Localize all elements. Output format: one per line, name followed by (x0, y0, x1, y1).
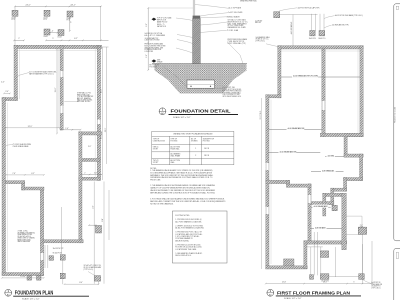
svg-text:BELOW: BELOW (255, 22, 261, 24)
svg-text:6′-2″: 6′-2″ (31, 173, 35, 175)
fp wall: left lower (2, 98, 6, 276)
dim: fp bottom a (1, 277, 44, 279)
title block box 1 (394, 4, 400, 241)
pier footing P1 (12, 10, 18, 16)
svg-text:4x8 BEAM AB.: 4x8 BEAM AB. (322, 169, 335, 172)
fp footing line: right (94, 47, 96, 178)
svg-text:31′-5″ M.O.: 31′-5″ M.O. (260, 110, 262, 119)
leader: bof (163, 67, 187, 88)
ffp notch top (344, 133, 363, 136)
ext line fp right dim b (106, 47, 108, 164)
svg-text:U.N.O. EXTEND 12″ MIN: U.N.O. EXTEND 12″ MIN (223, 94, 240, 96)
ffp label top 3 (332, 24, 349, 27)
svg-text:19′-0″: 19′-0″ (101, 134, 103, 139)
title block tick 2 (396, 252, 399, 258)
pier footing P7 (60, 273, 65, 279)
ffp left wall opening 1 (266, 163, 269, 170)
dim line: pier vertical (69, 17, 71, 32)
ffp label top 2 (335, 14, 364, 17)
beam: room7 (311, 228, 342, 230)
dim: pier P11 tie (88, 224, 96, 226)
svg-text:4x10 BEAM ABOVE: 4x10 BEAM ABOVE (288, 127, 306, 130)
leader: stem wall note (64, 101, 77, 103)
ffp chimney pier (332, 205, 337, 210)
fp wall: utility vert (22, 181, 25, 190)
fp right wall opening (97, 120, 100, 125)
svg-text:SIZE/DEPTH OF: SIZE/DEPTH OF (203, 139, 214, 141)
pier footing P8 (95, 276, 101, 282)
ffp footing line: top (280, 50, 362, 52)
svg-text:SCALE: 3/4″ = 1′-0″: SCALE: 3/4″ = 1′-0″ (173, 116, 191, 119)
table header c3 (191, 139, 198, 143)
svg-text:18x18 FTG: 18x18 FTG (318, 38, 326, 40)
beam: room4 (325, 156, 344, 158)
dim: stair horiz (80, 174, 103, 176)
svg-text:8′-0″: 8′-0″ (79, 282, 83, 284)
fp footing line: left upper (19, 47, 21, 99)
pier footing P12 (49, 256, 54, 260)
ffp wall: right mid (360, 154, 363, 181)
svg-text:24′-5″: 24′-5″ (25, 5, 30, 7)
ffp step mid 2 (287, 184, 312, 187)
ext: fp bottom 2 (98, 281, 100, 284)
table: grid (152, 131, 234, 164)
fp interior wall opening 2 (60, 106, 63, 113)
ffp notch left (344, 133, 347, 157)
foundation detail group (145, 0, 257, 119)
svg-text:34′-1″: 34′-1″ (70, 5, 75, 7)
ffp stair jog 3h (311, 202, 334, 205)
detail ext top (148, 7, 193, 9)
table header c2 (171, 139, 179, 143)
svg-text:18x18 FTG: 18x18 FTG (309, 38, 317, 40)
footing notes border (172, 211, 227, 263)
svg-text:18x18 FTG TYP: 18x18 FTG TYP (53, 248, 64, 250)
note: site grade (157, 60, 163, 64)
ffp bottom pier 1 (320, 251, 328, 258)
plan title: FOUNDATION PLAN (5, 289, 89, 300)
svg-text:4′-0″: 4′-0″ (1, 82, 5, 84)
ffp wall: mid horizontal (320, 133, 363, 136)
ffp bottom post lines (307, 232, 363, 277)
svg-text:LOCATIONS AT THE CASE.: LOCATIONS AT THE CASE. (175, 248, 197, 251)
svg-text:18x18: 18x18 (67, 18, 71, 20)
ffp wall: top (278, 46, 364, 49)
svg-text:2′-6″: 2′-6″ (146, 54, 148, 58)
ffp bottom pier 3 (310, 275, 314, 280)
ffp notch bottom (344, 154, 363, 157)
detail: footing rebar dot 1 (190, 86, 191, 87)
svg-text:TYPE OF: TYPE OF (171, 139, 178, 141)
svg-text:ELEC. SLEEVES THRU STEM: ELEC. SLEEVES THRU STEM (145, 46, 166, 48)
svg-text:FOOTING: FOOTING (171, 140, 179, 142)
ffp wall: bottom left (266, 266, 308, 269)
ffp ext right (362, 234, 364, 283)
svg-text:NOTED ON THE DRAWINGS.: NOTED ON THE DRAWINGS. (150, 202, 174, 205)
svg-text:FOOTING PER SCHEDULE: FOOTING PER SCHEDULE (223, 91, 242, 93)
ext line corridor right c (108, 190, 110, 240)
svg-text:TYPE OF: TYPE OF (153, 139, 160, 141)
fp footing line: interior (57, 47, 59, 128)
title block box 2 (394, 249, 400, 300)
fp bottom room wall opening (40, 253, 43, 260)
detail title: FOUNDATION DETAIL (159, 108, 238, 119)
ffp wall: interior vertical (322, 49, 325, 137)
ffp chimney right (342, 193, 347, 250)
table r1 c1 (153, 147, 159, 151)
svg-text:ELEV + 1′): ELEV + 1′) (157, 24, 165, 26)
svg-text:29′-0″: 29′-0″ (55, 87, 57, 92)
ffp step mid v (287, 180, 290, 187)
svg-text:3″ CLR. BOTTOM & SIDES.: 3″ CLR. BOTTOM & SIDES. (223, 89, 242, 91)
ffp ext right 2 (371, 241, 373, 284)
fp wall: utility horiz (22, 187, 45, 190)
ffp wall: lower left vert (304, 241, 307, 269)
svg-text:31′-5″: 31′-5″ (28, 126, 33, 128)
fp wall: bottom left (2, 273, 44, 276)
leader: rim seal (200, 17, 226, 18)
leader: right ab (200, 22, 227, 25)
svg-text:& BOTTOM OF STEM: & BOTTOM OF STEM (145, 40, 161, 42)
ext: fp bottom 1 (62, 260, 64, 284)
svg-text:4x4 POST W/: 4x4 POST W/ (371, 282, 381, 284)
notes paragraphs group (150, 168, 226, 206)
svg-text:ANCHOR SIZES).: ANCHOR SIZES). (175, 239, 189, 242)
svg-text:FOOTING NOTES:: FOOTING NOTES: (175, 215, 190, 217)
note: left d (145, 43, 166, 53)
table r1 c2 (171, 146, 181, 151)
svg-text:ONE (1): ONE (1) (153, 147, 159, 149)
svg-text:4″ MIN. CONC.: 4″ MIN. CONC. (18, 231, 29, 233)
dim: fp bottom b (64, 283, 100, 285)
dim line: fp top overall (14, 6, 102, 8)
footing notes box group (172, 211, 227, 263)
svg-text:13′-10″: 13′-10″ (20, 276, 26, 278)
leader: conc ftg note (88, 272, 97, 277)
svg-text:CONSTRUCTION: CONSTRUCTION (153, 140, 165, 142)
ffp step mid 1 (266, 180, 290, 183)
svg-text:AT ALL POST BEARING LOCATIONS.: AT ALL POST BEARING LOCATIONS. (175, 227, 204, 230)
note: proposed grade (228, 38, 248, 45)
leader: top plate (195, 5, 228, 9)
leader: 4slab (200, 30, 226, 32)
ffp leader top3 (324, 25, 332, 28)
pier footing P10 (37, 276, 42, 281)
beam: room5 (311, 171, 344, 173)
pier P3 label (67, 18, 71, 22)
svg-text:3′-6″: 3′-6″ (92, 205, 94, 209)
svg-text:12′-4″: 12′-4″ (101, 88, 103, 93)
fp wall: left upper (14, 45, 18, 100)
ffp wall: left jog (266, 95, 281, 98)
ffp line from pier (280, 14, 318, 16)
ext tie fp right (92, 46, 109, 48)
beam: room6 (311, 206, 331, 208)
fp wall: corridor bottom (43, 240, 83, 243)
ffp footing line: right (357, 47, 359, 133)
pier footing P2 (44, 10, 50, 16)
leader: left wall note (6, 145, 13, 146)
svg-text:W/ 4x4 POST: W/ 4x4 POST (53, 252, 62, 254)
svg-text:7′-6″: 7′-6″ (12, 173, 16, 175)
ffp bottom-right leader (363, 280, 372, 284)
svg-text:NO. OF: NO. OF (191, 139, 196, 141)
beam: room3 (269, 152, 320, 154)
leader: left c (177, 40, 193, 44)
svg-text:ALL POST BEARING LOCATIONS.: ALL POST BEARING LOCATIONS. (175, 220, 202, 223)
svg-text:BEFORE AND DURING THE CONSTRUC: BEFORE AND DURING THE CONSTRUCTION OF FO… (150, 191, 215, 194)
table r2 c2 (171, 153, 182, 158)
svg-text:4x10 BEAM ABV: 4x10 BEAM ABV (314, 205, 329, 208)
leader: left d (176, 48, 193, 53)
svg-text:MECH. INFO AT U.G.: MECH. INFO AT U.G. (175, 254, 192, 257)
ext line fp right (100, 6, 102, 40)
framing plan group (255, 6, 382, 289)
ffp label left wall 2 (256, 36, 271, 43)
ext line pier P6 up (61, 207, 63, 254)
ffp leader left (266, 44, 278, 47)
svg-text:FOUNDATION DETAIL: FOUNDATION DETAIL (171, 109, 231, 114)
ffp stair jog 2v (331, 188, 334, 205)
table header c1 (153, 139, 165, 143)
detail: grade line (152, 63, 247, 65)
svg-text:W/ 6x6 W1.4xW1.4: W/ 6x6 W1.4xW1.4 (18, 236, 31, 238)
svg-text:4x10 BEAM ABOVE (FLUSH): 4x10 BEAM ABOVE (FLUSH) (293, 75, 318, 78)
note: slab reinf (18, 231, 36, 244)
ffp deck lines (346, 216, 362, 234)
leader: slab note (17, 73, 30, 78)
svg-text:(TYP. U.N.O.): (TYP. U.N.O.) (371, 287, 381, 289)
ffp left wall opening 2 (266, 207, 269, 214)
ffp wall: left lower (266, 95, 269, 269)
schedule table group (152, 131, 234, 164)
detail: elevation diamond 1 (152, 18, 157, 21)
fp wall: top (14, 45, 102, 48)
fp wall: interior vertical (60, 45, 63, 130)
pier footing P9 (27, 276, 32, 281)
svg-text:FOOTING: FOOTING (150, 66, 158, 68)
svg-text:18 X 8: 18 X 8 (204, 155, 209, 157)
pier footing P11 (96, 226, 102, 234)
svg-text:4x10 BEAM ABOVE: 4x10 BEAM ABOVE (280, 150, 298, 153)
beam: room2 (269, 128, 322, 130)
fp wall: pocket band 4 (79, 177, 100, 180)
note: stem wall (77, 92, 94, 104)
ffp wall: right upper (360, 46, 363, 137)
svg-text:2′-6″: 2′-6″ (94, 172, 98, 174)
svg-text:18x18: 18x18 (44, 17, 48, 19)
ffp bottom-right note (371, 282, 382, 289)
svg-text:2″ MIN. BELOW TOP OF: 2″ MIN. BELOW TOP OF (228, 41, 245, 43)
ffp deck pier (358, 227, 366, 234)
svg-text:FIRST FLOOR FRAMING PLAN: FIRST FLOOR FRAMING PLAN (277, 290, 350, 296)
svg-text:1′-6″: 1′-6″ (65, 128, 69, 130)
ffp leader top2 (324, 16, 334, 19)
svg-text:(TYP. U.N.O.): (TYP. U.N.O.) (84, 269, 94, 271)
leader: left b (177, 35, 193, 38)
ffp label left wall (255, 20, 262, 24)
svg-text:14′-1″: 14′-1″ (323, 282, 328, 284)
ext line corridor right a (93, 182, 95, 284)
detail: stud wall lines (193, 0, 195, 16)
note: concrete slab (29, 71, 57, 76)
svg-text:STORY: STORY (153, 148, 158, 150)
ffp bottom dim (265, 283, 373, 285)
dim: mid horizontal (5, 174, 45, 176)
ffp pier top mid 1 (310, 31, 315, 36)
svg-text:6′-2″: 6′-2″ (74, 38, 78, 40)
svg-text:18x18x8 FTG: 18x18x8 FTG (371, 286, 381, 288)
fp wall: corridor vert (79, 132, 82, 243)
ffp stair jog 1v (344, 178, 347, 192)
pier footing P5 (58, 30, 64, 36)
ext line fp right dim a (101, 47, 103, 180)
ffp wall: lower interior vert (308, 184, 311, 244)
svg-text:18x18: 18x18 (44, 36, 48, 38)
svg-text:(2) #4 CONT. T&B: (2) #4 CONT. T&B (223, 87, 235, 89)
svg-text:3′-0″: 3′-0″ (88, 146, 92, 148)
svg-text:2′-0″: 2′-0″ (5, 91, 9, 93)
pier P2 label (44, 17, 48, 21)
svg-text:4x8 BM: 4x8 BM (328, 155, 335, 157)
ffp chimney top (323, 193, 344, 196)
svg-text:2′-1″: 2′-1″ (360, 225, 364, 227)
fp wall: right (97, 45, 100, 180)
fp wall: bottom room right (40, 187, 43, 275)
detail: footing rebar dot 2 (210, 86, 211, 87)
ffp bottom pier 5 (359, 274, 365, 280)
svg-text:18x18: 18x18 (12, 17, 16, 19)
svg-text:SCALE: 1/4″ = 1′-0″: SCALE: 1/4″ = 1′-0″ (284, 297, 302, 300)
ffp left dim line (261, 98, 263, 269)
pier footing P4 (44, 29, 50, 35)
ffp stair jog 1h (344, 178, 363, 181)
dim: detail vertical (147, 7, 149, 71)
detail: footing keyway (187, 83, 215, 85)
dim: interior vertical (56, 48, 58, 135)
svg-text:FROST LINE.: FROST LINE. (150, 180, 161, 182)
ffp right dim note (360, 225, 364, 229)
svg-text:STORIES: STORIES (191, 140, 198, 142)
fp wall: pocket band 1 (79, 132, 102, 135)
ffp lower interior opening (308, 195, 311, 203)
pier footing P3 (67, 11, 73, 17)
svg-text:18x18: 18x18 (58, 37, 62, 39)
svg-text:30″x30″x12″ CONC FTG: 30″x30″x12″ CONC FTG (84, 265, 102, 267)
svg-text:SITE: SITE (157, 60, 160, 62)
note: top of slab elev (157, 17, 171, 28)
dim line: pier horiz (50, 32, 59, 34)
ext line corridor right b (103, 182, 105, 284)
fp footing line: top (16, 50, 99, 52)
svg-text:VAPOR BARRIER (TYP. U.N.O.): VAPOR BARRIER (TYP. U.N.O.) (29, 73, 54, 76)
detail: stem wall concrete (193, 18, 201, 80)
fp footing line: left lower (7, 103, 9, 272)
note: left wall (13, 143, 32, 148)
svg-text:STORY: STORY (153, 162, 158, 164)
ext line fp left (14, 6, 16, 45)
ffp label top 1 (298, 6, 320, 9)
ffp stair jog 2h (331, 188, 347, 191)
svg-text:FOUNDATION PLAN: FOUNDATION PLAN (15, 291, 54, 297)
ffp posts verticals (312, 14, 325, 31)
svg-text:(TYP. U.N.O.): (TYP. U.N.O.) (256, 40, 266, 42)
svg-text:31′-5″: 31′-5″ (105, 127, 107, 132)
note: left c (145, 37, 161, 42)
svg-text:INTO UNDISTURBED SOIL: INTO UNDISTURBED SOIL (223, 96, 242, 98)
table r3 c2 (171, 159, 181, 164)
svg-text:TWO (2): TWO (2) (153, 160, 159, 162)
note: right ab block (228, 19, 249, 29)
footing notes text (175, 215, 204, 257)
ffp bottom pier 2 (320, 274, 329, 280)
svg-text:REF. FLOOR: REF. FLOOR (157, 20, 167, 22)
ffp chimney left (323, 193, 326, 216)
detail: sill plate (193, 16, 201, 19)
svg-text:1: 1 (195, 148, 196, 150)
leader: prop grade (227, 42, 243, 64)
ffp leader top1 (279, 8, 297, 11)
svg-text:4x8 BM ABV: 4x8 BM ABV (315, 226, 326, 229)
note: footing spec (223, 87, 242, 98)
dim line: fp left short (13, 40, 25, 42)
table r3 c1 (153, 160, 159, 164)
detail: footing (187, 80, 215, 88)
ffp wall: left upper (278, 46, 281, 98)
svg-text:2: 2 (195, 155, 196, 157)
leader: sill (200, 13, 228, 16)
svg-text:3′-0″: 3′-0″ (146, 23, 148, 27)
ffp wall: bottom right (304, 241, 347, 244)
title block tick 1 (396, 6, 399, 9)
dim: pocket top (61, 129, 82, 131)
svg-text:4x4 POST: 4x4 POST (255, 20, 262, 22)
pier P1 label (12, 17, 16, 21)
svg-text:BOTTOM OF: BOTTOM OF (150, 64, 159, 66)
fp corridor post lines (45, 245, 48, 268)
ffp bottom notch (284, 259, 295, 266)
dim: interior horizontal 31-5 (5, 127, 61, 129)
pier P5 label (58, 37, 62, 39)
dim: 2-0 left (3, 93, 11, 95)
leader: footing spec (215, 88, 223, 89)
svg-text:16 X 8: 16 X 8 (204, 148, 209, 150)
pier footing P6 (60, 255, 65, 261)
note: left b (145, 32, 167, 37)
ffp pier top mid 2 (319, 31, 325, 36)
plan title: FIRST FLOOR FRAMING PLAN (267, 289, 361, 300)
fp wall: utility horiz 2 (6, 181, 25, 184)
table header c4 (203, 139, 214, 143)
note: bottom of footing (150, 64, 159, 68)
detail: elevation diamond 2 (152, 59, 157, 62)
ffp footing line: left (270, 100, 272, 265)
svg-text:FOOTING: FOOTING (203, 140, 211, 142)
svg-text:PROJECT NO. 21-104: PROJECT NO. 21-104 (395, 107, 397, 123)
detail: earth hatch (155, 64, 247, 94)
fp interior wall opening 1 (60, 71, 63, 77)
svg-text:8′-0″: 8′-0″ (102, 218, 104, 222)
dim line: fp second (45, 40, 108, 42)
beam: room1 (281, 76, 360, 78)
note: conc ftg 30x30 (84, 265, 103, 271)
svg-text:TYP.: TYP. (360, 227, 364, 229)
svg-text:ONE AND TWO STORY FOUNDATION S: ONE AND TWO STORY FOUNDATION SCHEDULE (173, 133, 213, 136)
ffp post line a (292, 15, 294, 47)
ffp interior opening (322, 101, 325, 110)
ffp pier top-left (274, 12, 280, 18)
leader: tos (176, 18, 193, 21)
